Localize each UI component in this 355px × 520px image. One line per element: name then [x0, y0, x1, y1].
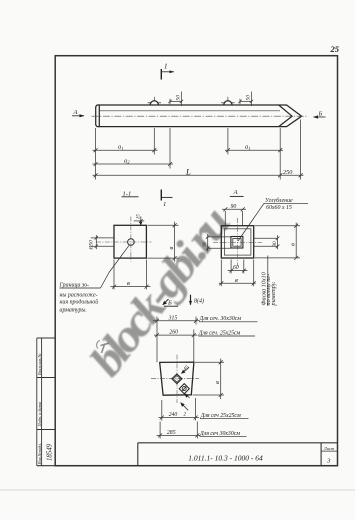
view mark Б (arrow + label) [162, 299, 178, 307]
dim 90 (right side, rotated) [254, 235, 279, 249]
svg-text:90: 90 [202, 241, 208, 247]
dim b (view A height, right) [255, 223, 300, 260]
svg-text:Б: Б [318, 110, 323, 117]
leader to recess [238, 203, 264, 241]
svg-text:Для сеч. 30х30см: Для сеч. 30х30см [199, 316, 242, 322]
recess outer square [231, 237, 243, 249]
view arrow Б (right end) [313, 110, 326, 118]
svg-text:а1: а1 [118, 144, 124, 151]
svg-text:А: А [233, 189, 239, 196]
dim a1 right [225, 148, 283, 152]
leader to rebar-zone note [109, 245, 130, 273]
chamfer leader line [267, 256, 269, 307]
dim b (view A width, bottom) [219, 260, 256, 287]
dim 90 (top) [222, 207, 246, 225]
dim 60 (recess, below) [228, 260, 248, 274]
svg-text:в: в [127, 280, 130, 287]
note: rebar zone boundary text [59, 283, 99, 314]
svg-text:Взам.инв.№: Взам.инв.№ [37, 353, 42, 375]
extension lines below beam [96, 120, 301, 180]
beam axis centerline [92, 115, 308, 117]
rebar mark 8(4) [189, 295, 204, 306]
leader 45 (chamfer angle) [181, 364, 191, 374]
svg-text:Подп. и дата: Подп. и дата [37, 402, 42, 428]
svg-text:18549: 18549 [47, 443, 54, 461]
section mark 1 (bottom) [161, 190, 172, 201]
svg-text:1: 1 [163, 201, 166, 208]
svg-text:1: 1 [164, 63, 168, 71]
svg-text:Граница зо-: Граница зо- [59, 283, 90, 289]
section mark 1 (top) [161, 69, 174, 80]
view A chamfer square [224, 229, 251, 255]
stamp sidebar boxes [37, 338, 338, 466]
svg-text:Для сеч 25х25см: Для сеч 25х25см [200, 413, 241, 419]
svg-text:250: 250 [283, 169, 293, 176]
svg-text:1.011.1- 10.3 - 1000 - 64: 1.011.1- 10.3 - 1000 - 64 [188, 453, 263, 462]
svg-text:Лист: Лист [323, 446, 335, 451]
dim a2 [93, 162, 174, 166]
svg-text:8(4): 8(4) [194, 297, 204, 304]
hole circle d50 [128, 239, 135, 246]
svg-text:315: 315 [168, 315, 178, 321]
svg-text:15: 15 [136, 214, 142, 220]
svg-text:Углубление: Углубление [265, 197, 293, 204]
lifting loop P2 right [221, 97, 234, 105]
dim a1 left [93, 148, 158, 152]
svg-text:60: 60 [233, 265, 239, 271]
svg-text:в: в [168, 247, 175, 250]
watermark block-gbi.ru [81, 199, 240, 385]
svg-text:90: 90 [231, 204, 237, 210]
title block box [138, 443, 338, 466]
section 1-1 square [114, 225, 146, 258]
dim 15 (loop bar offset) [134, 216, 145, 225]
dim d50 (hole) [91, 235, 114, 249]
dim 260 (for 25x25 piles) [154, 330, 198, 363]
svg-text:в: в [235, 277, 238, 284]
view A outer square [221, 226, 253, 258]
dim 240 (for 25x25) [159, 398, 200, 421]
svg-text:Ø50: Ø50 [88, 240, 94, 251]
svg-text:285: 285 [167, 430, 176, 436]
leader T2 [180, 402, 188, 417]
svg-text:260: 260 [169, 330, 178, 336]
section title 1-1 [122, 191, 139, 198]
view title A [230, 189, 244, 196]
tip view centerlines [176, 355, 178, 404]
svg-text:60х60 х 15: 60х60 х 15 [266, 205, 292, 211]
svg-text:риметру.: риметру. [270, 281, 277, 306]
svg-text:Инв.№подл.: Инв.№подл. [37, 443, 42, 466]
svg-text:в: в [214, 381, 221, 384]
watermark dark flourish mark [97, 341, 109, 354]
svg-text:50: 50 [246, 95, 252, 101]
lifting loop P1 left [148, 97, 161, 105]
svg-text:ны расположе-: ны расположе- [60, 292, 98, 298]
svg-text:Для сеч 30х30см: Для сеч 30х30см [199, 431, 240, 437]
tip view outline (trapezoid) [160, 362, 194, 395]
beam arris edge line [99, 110, 280, 112]
dim b (section width, bottom) [111, 260, 151, 290]
svg-text:арматуры.: арматуры. [60, 307, 87, 313]
loop P1 offset dim 50 [168, 92, 183, 107]
beam body outline (side view) [96, 105, 302, 127]
svg-text:block-gbi.ru: block-gbi.ru [81, 199, 240, 385]
svg-text:90: 90 [272, 241, 278, 247]
svg-text:3: 3 [326, 457, 331, 464]
view A centerlines [236, 218, 238, 266]
dim L overall + 250 tip [93, 173, 304, 177]
svg-text:25: 25 [330, 44, 340, 54]
section centerlines [130, 217, 132, 262]
view arrow A (left end) [72, 109, 85, 118]
loop P2 offset dim 50 [238, 92, 253, 107]
hole mark in small diamond [182, 387, 186, 391]
svg-text:а1: а1 [245, 144, 251, 151]
small diamond (tip flat) [179, 384, 189, 394]
beam tip inner chevron [279, 105, 292, 127]
drawing frame [55, 56, 337, 466]
svg-text:L: L [185, 166, 191, 176]
svg-text:а2: а2 [124, 157, 130, 164]
dim 285 (for 30x30) [157, 422, 201, 439]
dim b (section height, right) [148, 222, 179, 262]
svg-text:Для сеч. 25х25см: Для сеч. 25х25см [198, 330, 241, 336]
svg-text:А: А [73, 109, 78, 116]
note: chamfer text (vertical) [260, 271, 276, 306]
note: recess label [265, 197, 293, 211]
recess inner square [233, 239, 241, 247]
dim 90 (left side, rotated) [206, 234, 231, 251]
svg-text:50: 50 [176, 95, 182, 101]
svg-text:Б: Б [167, 300, 172, 307]
large diamond (chamfered point) [172, 374, 182, 384]
svg-text:240: 240 [169, 411, 178, 418]
svg-text:в: в [290, 243, 297, 246]
svg-text:2: 2 [184, 412, 187, 418]
dim b (tip view, right) [193, 359, 225, 400]
svg-text:ния продольной: ния продольной [60, 299, 99, 306]
scan fold line bottom [0, 489, 355, 491]
dim 315 (for 30x30 piles) [153, 317, 200, 363]
small diamond leader arrow [184, 393, 189, 398]
